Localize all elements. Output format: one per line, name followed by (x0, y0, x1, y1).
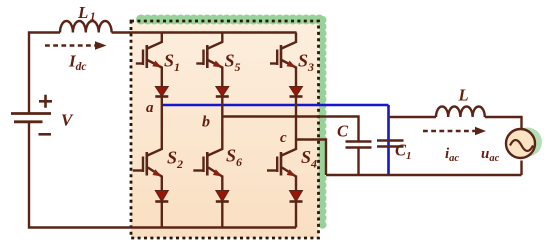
label node b (202, 114, 210, 131)
converter enclosure green highlight top band (141, 15, 322, 25)
label C (337, 122, 349, 141)
label S1 (164, 51, 180, 75)
switch S5 series diode (216, 87, 229, 117)
switch S3 series diode (290, 87, 303, 140)
blue wire vertical at C1 (387, 105, 390, 175)
label S3 (298, 51, 314, 75)
label S4 (301, 147, 317, 171)
current arrow i_ac (423, 127, 486, 135)
label node c (280, 130, 287, 146)
label S6 (226, 146, 242, 170)
battery minus sign (39, 133, 52, 136)
wire: bottom load rail (326, 174, 522, 176)
switch S6 series diode (216, 191, 229, 228)
battery plus sign (39, 95, 52, 108)
node b wire (222, 117, 358, 142)
label C1 (395, 141, 412, 163)
svg-text:L: L (458, 86, 469, 105)
capacitor C (346, 142, 372, 176)
label L (458, 86, 469, 105)
label L1 (77, 3, 96, 23)
switch S4 transistor (267, 140, 296, 191)
node c wire (296, 140, 326, 176)
inductor L (436, 106, 485, 117)
node a blue wire (162, 104, 389, 107)
switch S1 transistor (136, 33, 162, 88)
converter enclosure box fill (131, 21, 319, 238)
label S2 (167, 148, 183, 172)
switch S5 transistor (196, 33, 222, 88)
svg-text:a: a (146, 100, 154, 116)
wire: battery bottom to bottom bus (29, 122, 296, 227)
label S5 (225, 51, 241, 75)
wire: top bus inside converter (112, 31, 297, 33)
label node a (146, 100, 154, 116)
label I_dc (68, 52, 86, 74)
wire: load top rail (389, 116, 437, 118)
current arrow I_dc (45, 41, 107, 49)
label u_ac (481, 146, 500, 164)
wire: to AC source (485, 117, 522, 175)
switch S1 series diode (155, 87, 168, 106)
svg-text:c: c (280, 130, 287, 146)
converter enclosure dotted border (131, 21, 319, 238)
switch S4 series diode (290, 191, 303, 228)
battery V plates (11, 114, 51, 122)
label V (61, 111, 74, 130)
switch S3 transistor (270, 33, 296, 88)
AC source u_ac (506, 129, 535, 158)
switch S6 transistor (193, 117, 222, 191)
switch S2 transistor (133, 105, 162, 191)
switch S2 series diode (155, 191, 168, 228)
svg-text:b: b (202, 114, 210, 131)
inductor L1 (60, 21, 112, 33)
svg-text:V: V (61, 111, 74, 130)
svg-text:C: C (337, 122, 349, 141)
wire: top rail from battery to bus (29, 33, 60, 113)
capacitor C1 (377, 141, 404, 147)
AC source green shadow (513, 128, 542, 157)
converter enclosure green highlight right band (319, 20, 327, 228)
label i_ac (445, 146, 459, 164)
